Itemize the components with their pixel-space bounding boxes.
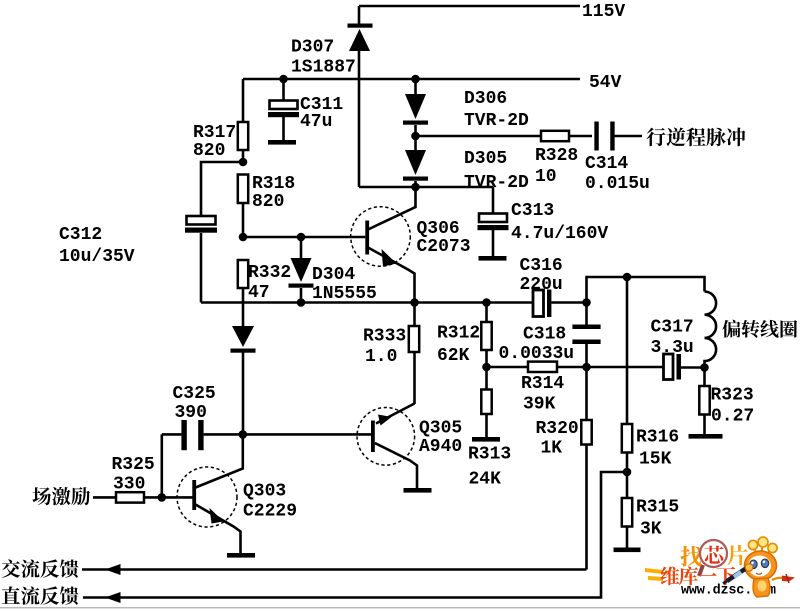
svg-text:62K: 62K: [437, 346, 470, 366]
ground Q303 emitter: [227, 553, 255, 558]
wire D304 to bus: [300, 288, 303, 303]
svg-text:C2073: C2073: [417, 237, 471, 257]
svg-text:10u/35V: 10u/35V: [59, 247, 135, 267]
wire R313 to ground: [485, 414, 488, 437]
svg-text:220u: 220u: [520, 275, 563, 295]
svg-text:C325: C325: [173, 384, 216, 404]
wire C314 to output: [614, 135, 642, 138]
ground C311: [268, 140, 296, 145]
svg-text:C313: C313: [511, 201, 554, 221]
svg-text:R313: R313: [468, 445, 511, 465]
svg-text:Q305: Q305: [419, 419, 462, 439]
wire R317 to node: [242, 150, 245, 162]
junction R318/R332/Q306 base: [239, 233, 248, 242]
capacitor C317: [664, 354, 682, 380]
wire C325 branch down: [161, 434, 164, 497]
svg-text:820: 820: [193, 141, 225, 161]
resistor R312: [481, 322, 491, 350]
resistor R314: [528, 362, 557, 372]
wire D307 anode to Q306 collector node: [358, 51, 361, 187]
wire 54V to D306: [414, 79, 417, 95]
wire 54V to C311: [282, 79, 285, 101]
svg-text:47u: 47u: [300, 112, 332, 132]
svg-text:820: 820: [252, 192, 284, 212]
resistor R315: [622, 498, 632, 527]
junction C316/C318/coil riser: [582, 298, 591, 307]
wire R332 to diode: [242, 288, 245, 327]
wire 115V rail: [359, 5, 580, 8]
wire AC feedback: [82, 568, 587, 571]
wire C325 to Q305 base: [204, 433, 371, 436]
svg-text:115V: 115V: [582, 2, 625, 22]
svg-text:Q303: Q303: [243, 482, 286, 502]
junction D304/bus: [297, 298, 306, 307]
wire C313 to ground: [492, 230, 495, 256]
wire C317 to coil bottom: [681, 366, 705, 369]
diode D305: [403, 150, 428, 181]
wire R325 to Q303 base: [144, 496, 193, 499]
net label 交流反馈: [2, 559, 79, 577]
capacitor C311: [268, 101, 299, 118]
svg-text:C318: C318: [523, 325, 566, 345]
svg-text:D304: D304: [312, 265, 355, 285]
resistor R316: [622, 424, 632, 453]
svg-text:10: 10: [535, 167, 557, 187]
wire R323 to ground: [703, 415, 706, 435]
resistor R328: [541, 131, 569, 141]
wire Q306 base line: [243, 236, 365, 239]
diode D304: [289, 258, 314, 288]
transistor Q303: [177, 434, 243, 553]
junction coil/C317/R323: [700, 363, 709, 372]
wire node to R313: [485, 367, 488, 390]
junction C325/Q305 base/Q303 collector: [239, 430, 248, 439]
wire node to C312: [201, 162, 243, 217]
wire C312 to bus: [200, 233, 203, 303]
junction D305/Q306 collector: [411, 183, 420, 192]
svg-text:C2229: C2229: [243, 502, 297, 522]
svg-text:D307: D307: [291, 38, 334, 58]
wire bus to R312: [485, 303, 488, 323]
svg-text:C317: C317: [651, 318, 694, 338]
junction R312/R313/R314: [482, 363, 491, 372]
junction D306/D305/retrace pulse: [411, 132, 420, 141]
wire C318 to node: [585, 344, 588, 367]
label 偏转线圈: [722, 320, 797, 338]
wire bus to deflection coil top: [587, 277, 705, 303]
net label 直流反馈: [2, 586, 79, 604]
resistor R333: [409, 326, 419, 352]
junction R317/R318/C312: [239, 158, 248, 167]
transistor Q305: [357, 404, 417, 489]
wire R318 to base node: [242, 203, 245, 237]
diode D307: [348, 24, 373, 52]
ground R313: [472, 437, 500, 442]
junction R314/C318/R320: [582, 363, 591, 372]
wire node to R320: [585, 367, 588, 420]
capacitor C316: [533, 290, 551, 318]
junction 54V/D306: [411, 75, 420, 84]
junction bus/R312: [482, 298, 491, 307]
watermark mascot: [723, 537, 795, 597]
junction base line/D304: [297, 233, 306, 242]
ground R323: [689, 434, 723, 439]
svg-text:39K: 39K: [523, 395, 556, 415]
wire bus to R333: [413, 303, 416, 327]
svg-text:R314: R314: [521, 374, 564, 394]
arrow AC feedback: [105, 564, 121, 575]
wire diode to Q303 collector node: [242, 351, 245, 434]
wire D306 to D305: [414, 125, 417, 136]
svg-text:R325: R325: [112, 455, 155, 475]
resistor R323: [699, 386, 709, 415]
diode D306: [403, 94, 428, 125]
svg-text:0.27: 0.27: [711, 407, 754, 427]
inductor deflection coil: [705, 292, 717, 368]
svg-text:1K: 1K: [541, 439, 563, 459]
capacitor C314: [594, 122, 614, 151]
watermark logo 找芯片 维库一下 www.dzsc.com: [645, 540, 748, 581]
ground R315: [614, 548, 641, 553]
svg-text:390: 390: [175, 403, 207, 423]
svg-text:C314: C314: [585, 154, 628, 174]
junction coil link/R316: [623, 273, 632, 282]
wire node to C318: [585, 303, 588, 326]
wire R333 to Q305 emitter: [413, 352, 416, 404]
svg-text:TVR-2D: TVR-2D: [464, 111, 529, 131]
svg-text:24K: 24K: [469, 470, 502, 490]
wire collector node rail: [359, 186, 493, 189]
wire node to C313: [492, 187, 495, 214]
net label 场激励: [32, 487, 90, 505]
junction 54V/C311: [279, 75, 288, 84]
capacitor C312: [185, 216, 217, 233]
svg-text:A940: A940: [419, 437, 462, 457]
wire D307 cathode lead: [358, 6, 361, 24]
resistor R332: [238, 260, 248, 288]
capacitor C325: [181, 420, 203, 450]
ground Q305 collector: [404, 488, 432, 493]
svg-text:1S1887: 1S1887: [291, 58, 356, 78]
wire D304 anode lead: [300, 237, 303, 259]
svg-text:330: 330: [113, 475, 145, 495]
junction Q306 emitter/bus: [410, 298, 419, 307]
resistor R318: [238, 175, 248, 204]
wire R314 to node: [557, 366, 587, 369]
resistor R325: [116, 492, 144, 502]
svg-text:47: 47: [248, 283, 270, 303]
svg-text:R318: R318: [252, 174, 295, 194]
wire C316 to coil node: [551, 301, 586, 304]
svg-text:R328: R328: [535, 146, 578, 166]
svg-text:C312: C312: [59, 225, 102, 245]
wire to C325 left plate: [162, 433, 182, 436]
svg-text:R333: R333: [363, 327, 406, 347]
svg-text:D306: D306: [464, 89, 507, 109]
svg-text:R323: R323: [711, 386, 754, 406]
svg-text:Q306: Q306: [417, 219, 460, 239]
wire R312 to node: [485, 350, 488, 367]
svg-text:R315: R315: [636, 498, 679, 518]
wire 54V to R317: [242, 79, 245, 122]
border bottom rule: [0, 607, 800, 608]
svg-text:3K: 3K: [640, 520, 662, 540]
wire node to R314: [487, 366, 529, 369]
svg-text:0.015u: 0.015u: [585, 174, 650, 194]
wire D305 to collector node: [414, 181, 417, 187]
watermark text 维库一下: [661, 566, 736, 585]
svg-text:1.0: 1.0: [365, 347, 397, 367]
svg-text:R312: R312: [437, 324, 480, 344]
svg-text:C316: C316: [520, 256, 563, 276]
diode D308: [231, 326, 256, 353]
wire node to R323: [703, 368, 706, 387]
wire DC feedback: [83, 472, 627, 598]
wire node to R315: [626, 472, 629, 498]
svg-text:D305: D305: [464, 149, 507, 169]
wire pulse node to R328: [416, 135, 542, 138]
resistor R320: [581, 420, 591, 445]
wire 54V rail: [243, 78, 580, 81]
wire R315 to ground: [626, 527, 629, 548]
capacitor C318: [572, 325, 600, 345]
wire C311 to ground: [282, 117, 285, 140]
wire input to R325: [93, 496, 116, 499]
svg-text:R316: R316: [636, 428, 679, 448]
wire coil link to R316: [626, 277, 629, 424]
svg-text:R320: R320: [536, 419, 579, 439]
resistor R317: [238, 122, 248, 150]
resistor R313: [481, 390, 491, 415]
wire R328 to C314: [569, 135, 592, 138]
capacitor C313: [478, 214, 509, 231]
svg-text:3.3u: 3.3u: [651, 338, 694, 358]
junction R325/Q303 base: [158, 493, 167, 502]
wire node to C317: [587, 366, 664, 369]
svg-text:TVR-2D: TVR-2D: [464, 173, 529, 193]
svg-text:R317: R317: [193, 123, 236, 143]
wire main bus: [201, 301, 533, 304]
wire R320 to AC feedback: [585, 445, 588, 570]
net label 行逆程脉冲: [646, 127, 745, 146]
svg-text:4.7u/160V: 4.7u/160V: [511, 224, 608, 244]
svg-text:15K: 15K: [639, 450, 672, 470]
wire D305 anode lead: [414, 136, 417, 151]
arrow DC feedback: [105, 592, 121, 603]
junction R316/R315/DC feedback: [623, 468, 632, 477]
transistor Q306: [351, 187, 416, 302]
wire R316 to node: [626, 453, 629, 473]
ground C313: [479, 256, 507, 261]
svg-text:R332: R332: [248, 263, 291, 283]
svg-text:54V: 54V: [589, 73, 622, 93]
svg-text:1N5555: 1N5555: [312, 284, 377, 304]
